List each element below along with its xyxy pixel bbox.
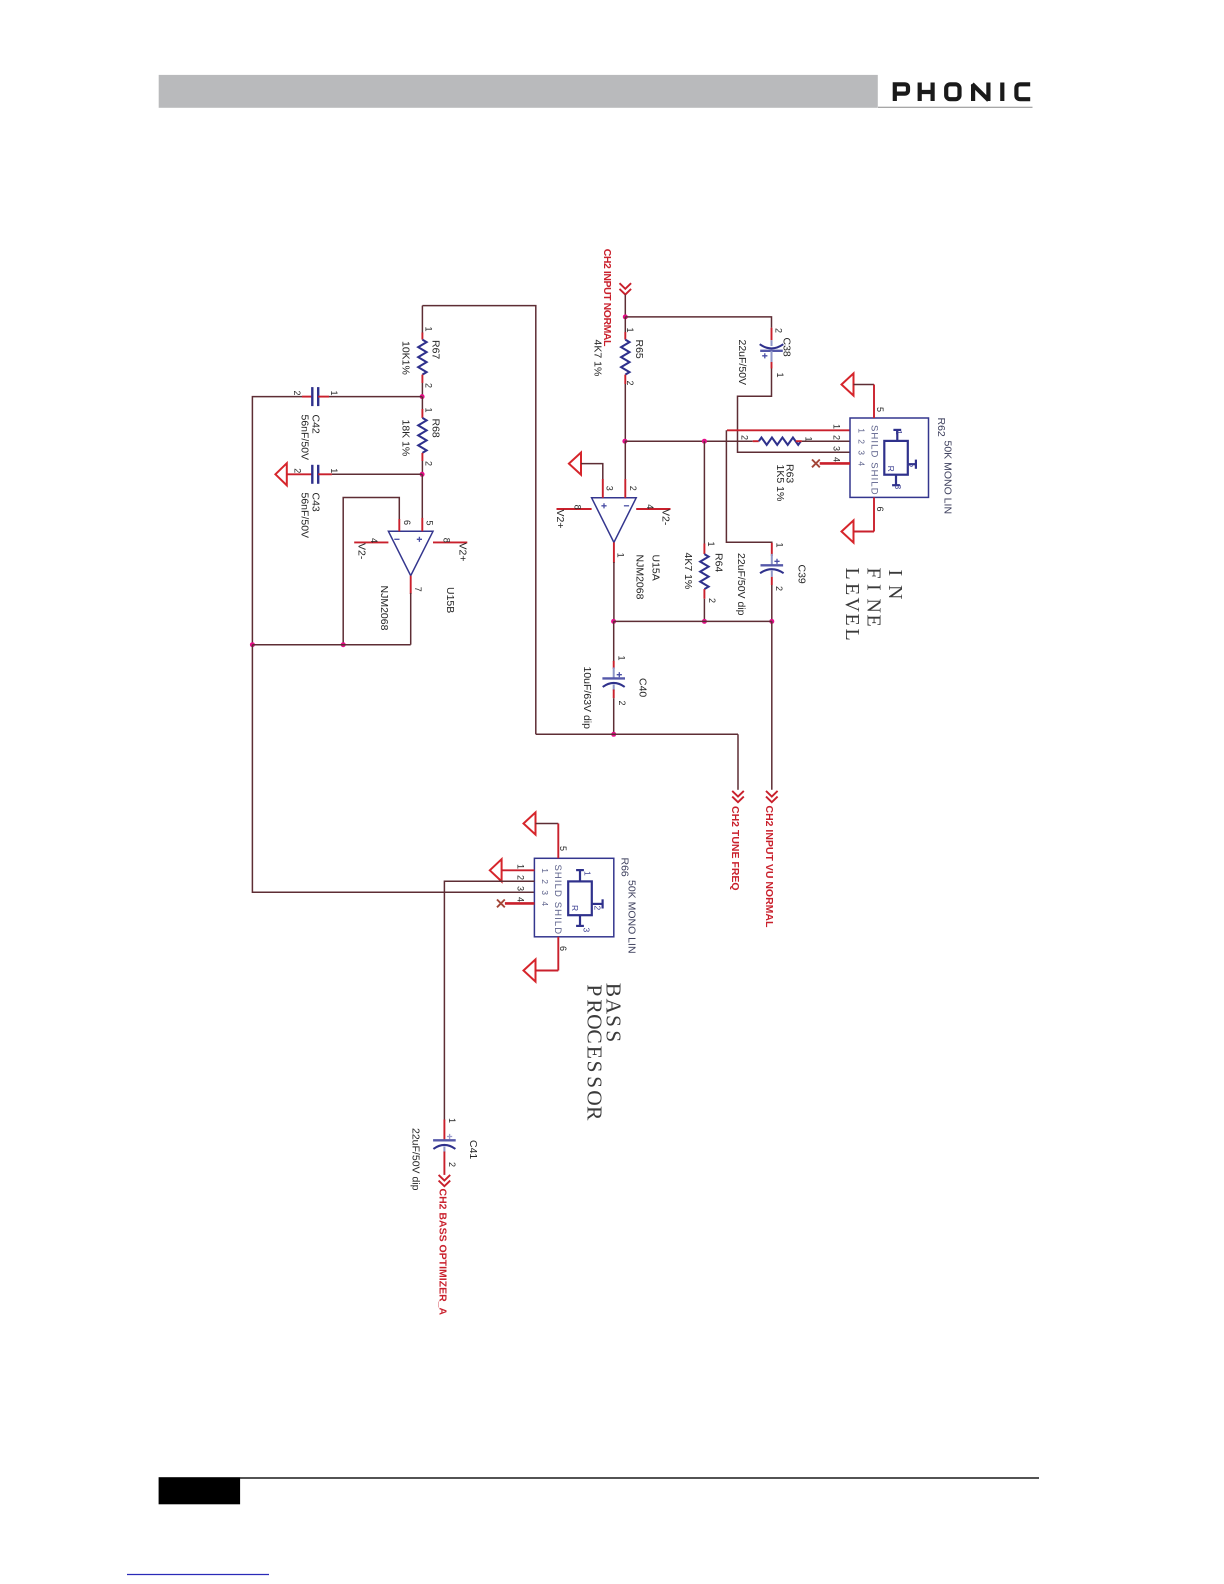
svg-text:18K 1%: 18K 1% [399, 420, 411, 457]
svg-text:2: 2 [516, 875, 526, 880]
svg-text:2: 2 [424, 461, 434, 466]
potentiometer R62 box [850, 418, 929, 497]
svg-text:N: N [862, 599, 884, 613]
svg-text:1: 1 [775, 373, 785, 378]
PHONIC logo letter C [1016, 84, 1030, 99]
svg-text:R66: R66 [619, 858, 631, 877]
U15B pin5 wire from node D [421, 474, 423, 531]
wire top feedback rail [422, 306, 535, 735]
resistor R67 [418, 333, 426, 384]
wire C42 right to node C [329, 396, 422, 398]
R66 pin2 wire to C41 [444, 881, 534, 1120]
shield arrow at C43 [275, 463, 286, 485]
svg-text:1: 1 [424, 408, 434, 413]
svg-text:1: 1 [832, 424, 842, 429]
U15B power pin 8 wire V2+ [433, 541, 467, 543]
svg-text:5: 5 [875, 407, 885, 412]
svg-text:V2+: V2+ [554, 510, 566, 529]
svg-text:E: E [582, 1046, 606, 1059]
svg-text:2: 2 [857, 439, 867, 444]
svg-text:2: 2 [740, 435, 750, 440]
wire rail to R67 [421, 306, 423, 334]
connector CH2 INPUT NORMAL chevron [620, 283, 632, 294]
connector CH2 TUNE FREQ chevron [732, 791, 744, 802]
wire node J to U15B output [252, 644, 410, 646]
title BASS PROCESSOR [582, 983, 625, 1121]
wire C43 right to node D [332, 473, 422, 475]
svg-text:1K5 1%: 1K5 1% [774, 465, 786, 502]
R66 pin6 wire and shield arrow [524, 937, 559, 982]
svg-text:V2+: V2+ [457, 543, 469, 562]
wire node F to node H [614, 620, 772, 622]
R66 pin5 wire and shield arrow [524, 812, 559, 858]
wire C42 left to left rail [252, 397, 302, 645]
R62 pin4 X mark [812, 460, 820, 468]
svg-text:2: 2 [905, 463, 915, 468]
svg-text:5: 5 [425, 521, 435, 526]
wire R63 to R62 pin2 [802, 440, 850, 442]
svg-text:2: 2 [625, 381, 635, 386]
svg-text:R: R [886, 466, 896, 472]
wire R62 pin1 to C39 [726, 430, 850, 554]
svg-text:2: 2 [293, 468, 303, 473]
node C dot [420, 394, 425, 399]
U15B pin6 feedback wire [343, 498, 399, 645]
resistor R64 [700, 544, 708, 599]
svg-text:4: 4 [540, 901, 550, 906]
svg-text:2: 2 [707, 598, 717, 603]
svg-text:2: 2 [593, 906, 603, 911]
svg-text:8: 8 [572, 505, 582, 510]
svg-text:2: 2 [774, 328, 784, 333]
node J dot [250, 642, 255, 647]
node K dot [341, 642, 346, 647]
wire node E down to R64 [703, 441, 705, 544]
wire C39 to node H [771, 585, 773, 621]
PHONIC logo letter I [1000, 83, 1004, 102]
svg-text:E: E [841, 583, 863, 595]
svg-text:1: 1 [616, 656, 626, 661]
PHONIC logo letter N [972, 83, 988, 102]
svg-text:2: 2 [447, 1162, 457, 1167]
capacitor C38 [760, 328, 784, 369]
R62 outside pin digits [832, 424, 842, 462]
svg-text:3: 3 [581, 928, 591, 933]
connector CH2 INPUT VU NORMAL chevron [766, 791, 778, 802]
wire node A to C38 top [625, 317, 771, 328]
svg-text:1: 1 [540, 868, 550, 873]
svg-text:1: 1 [424, 327, 434, 332]
svg-text:O: O [582, 1014, 606, 1030]
node E dot [702, 439, 707, 444]
svg-text:4: 4 [832, 457, 842, 462]
svg-text:50K MONO LIN: 50K MONO LIN [942, 441, 954, 515]
svg-text:5: 5 [558, 846, 568, 851]
wire node I to chevron CH2 TUNE FREQ [737, 734, 739, 790]
wire node B to R63 row [625, 440, 753, 442]
R62 pin6 wire and shield arrow [842, 497, 875, 542]
footer rule line [240, 1477, 1039, 1479]
svg-text:R67: R67 [430, 340, 442, 359]
svg-text:C41: C41 [467, 1140, 479, 1159]
capacitor C40 [602, 661, 625, 698]
svg-text:C40: C40 [637, 678, 649, 697]
svg-text:56nF/50V: 56nF/50V [299, 415, 311, 461]
svg-text:8: 8 [442, 538, 452, 543]
svg-text:CH2 BASS OPTIMIZER_A: CH2 BASS OPTIMIZER_A [437, 1189, 449, 1316]
svg-text:1: 1 [775, 543, 785, 548]
header underline [878, 106, 1033, 108]
svg-text:4: 4 [857, 461, 867, 466]
svg-text:E: E [841, 614, 863, 626]
svg-text:1: 1 [516, 864, 526, 869]
svg-text:1: 1 [582, 871, 592, 876]
capacitor C42 [302, 387, 329, 406]
svg-text:R68: R68 [430, 419, 442, 438]
svg-text:22uF/50V dip: 22uF/50V dip [735, 553, 747, 616]
svg-text:7: 7 [413, 587, 423, 592]
svg-text:3: 3 [893, 485, 903, 490]
resistor R65 [621, 332, 629, 384]
node A dot [623, 314, 628, 319]
svg-text:O: O [582, 1090, 606, 1106]
resistor R68 [418, 409, 426, 461]
U15A output pin1 wire [613, 542, 615, 621]
node I dot [611, 732, 616, 737]
svg-text:6: 6 [558, 946, 568, 951]
op-amp U15A [592, 498, 637, 543]
svg-text:N: N [884, 585, 906, 599]
svg-text:6: 6 [402, 520, 412, 525]
wire node A down to R65 [624, 317, 626, 333]
svg-text:C: C [582, 1029, 606, 1043]
R62 pin4 no-connect stub [820, 462, 850, 465]
svg-text:4K7 1%: 4K7 1% [682, 553, 694, 590]
svg-text:NJM2068: NJM2068 [634, 555, 646, 600]
PHONIC logo letter H [920, 83, 933, 102]
svg-text:10uF/63V dip: 10uF/63V dip [581, 667, 593, 730]
svg-text:R65: R65 [633, 340, 645, 359]
wire R64 to node G [703, 599, 705, 622]
svg-text:2: 2 [540, 879, 550, 884]
potentiometer R66 box [534, 858, 613, 937]
svg-text:R: R [570, 905, 580, 911]
svg-text:2: 2 [617, 701, 627, 706]
svg-text:V: V [841, 598, 863, 613]
svg-text:4: 4 [645, 504, 655, 509]
svg-text:2: 2 [292, 391, 302, 396]
svg-text:CH2 INPUT NORMAL: CH2 INPUT NORMAL [601, 249, 613, 347]
svg-text:1: 1 [706, 542, 716, 547]
wire node F down to C40 [613, 621, 615, 661]
svg-text:R62: R62 [935, 418, 947, 437]
capacitor C43 [287, 465, 332, 484]
svg-text:NJM2068: NJM2068 [378, 586, 390, 631]
svg-text:S: S [582, 1076, 606, 1088]
svg-text:4: 4 [369, 538, 379, 543]
wire R65 to node B [624, 384, 626, 441]
wire R67 to node C [421, 383, 423, 397]
svg-text:10K1%: 10K1% [399, 341, 411, 375]
svg-text:1: 1 [447, 1118, 457, 1123]
node F dot [611, 619, 616, 624]
svg-text:3: 3 [832, 446, 842, 451]
wire chevron to node A [624, 295, 626, 317]
svg-text:22uF/50V: 22uF/50V [736, 340, 748, 386]
wire node H to chevron CH2 INPUT VU NORMAL [771, 621, 773, 789]
svg-text:1: 1 [329, 468, 339, 473]
node B dot [622, 439, 627, 444]
svg-text:R: R [582, 1106, 606, 1121]
svg-text:R: R [582, 999, 606, 1014]
svg-text:V2-: V2- [356, 543, 368, 560]
svg-text:1: 1 [857, 428, 867, 433]
svg-text:U15B: U15B [444, 587, 456, 613]
svg-text:22uF/50V dip: 22uF/50V dip [410, 1128, 422, 1191]
U15A power pin 8 wire V2+ [557, 508, 592, 510]
wire R68 to node D [421, 461, 423, 474]
svg-text:SHILD SHILD: SHILD SHILD [552, 865, 563, 936]
svg-text:2: 2 [832, 435, 842, 440]
R66 pin4 no-connect stub [505, 902, 535, 905]
capacitor C39 [760, 543, 784, 585]
U15B power pin 4 wire V2- [354, 541, 388, 543]
PHONIC logo letter O [946, 84, 959, 99]
svg-text:3: 3 [857, 450, 867, 455]
R66 outside pin digits [516, 864, 526, 902]
svg-text:C39: C39 [796, 565, 808, 584]
header gray bar [159, 75, 878, 108]
svg-text:SHILD SHILD: SHILD SHILD [868, 425, 879, 496]
footer black box [159, 1477, 241, 1504]
wire C38 to R62 pin3 [738, 369, 851, 453]
wire node I row [536, 733, 738, 735]
wire C40 to node I [613, 698, 615, 734]
U15A power pin 4 wire V2- [636, 508, 670, 510]
wire left rail down to R66 pin3 [252, 645, 534, 893]
U15A pin2 wire from node B [624, 441, 626, 498]
svg-text:CH2 TUNE FREQ: CH2 TUNE FREQ [729, 806, 741, 891]
svg-text:1: 1 [616, 553, 626, 558]
wire node C to R68 [421, 397, 423, 410]
svg-text:6: 6 [875, 507, 885, 512]
svg-text:50K MONO LIN: 50K MONO LIN [626, 880, 638, 954]
svg-text:CH2 INPUT VU NORMAL: CH2 INPUT VU NORMAL [763, 806, 775, 929]
node G dot [702, 619, 707, 624]
R66 inside pin digits [540, 868, 550, 906]
svg-text:2: 2 [774, 586, 784, 591]
svg-text:4K7 1%: 4K7 1% [592, 340, 604, 377]
title IN FINE LEVEL [841, 568, 906, 641]
svg-text:F: F [862, 568, 884, 579]
svg-text:2: 2 [424, 383, 434, 388]
PHONIC logo letter P [895, 84, 908, 101]
svg-text:E: E [862, 615, 884, 627]
R62 pin5 wire and shield arrow [842, 373, 875, 418]
connector CH2 BASS OPTIMIZER_A chevron [439, 1175, 451, 1186]
svg-text:3: 3 [605, 486, 615, 491]
svg-text:S: S [582, 1061, 606, 1073]
U15A pin3 wire and shield arrow [569, 453, 603, 498]
R66 internal pot resistor [568, 870, 602, 926]
svg-text:C38: C38 [781, 338, 793, 357]
resistor R63 [753, 438, 802, 445]
svg-text:1: 1 [329, 391, 339, 396]
svg-text:L: L [841, 568, 863, 580]
svg-text:56nF/50V: 56nF/50V [299, 493, 311, 539]
svg-text:3: 3 [516, 886, 526, 891]
R66 pin1 wire and shield arrow [490, 859, 535, 881]
capacitor C41 [433, 1120, 456, 1175]
svg-text:1: 1 [625, 328, 635, 333]
svg-text:I: I [862, 584, 884, 591]
svg-text:V2-: V2- [660, 509, 672, 526]
svg-text:1: 1 [894, 430, 904, 435]
footer blue link line [127, 1574, 269, 1576]
svg-text:I: I [884, 570, 906, 577]
R62 inside pin digits [857, 428, 867, 466]
R62 internal pot resistor [884, 430, 916, 485]
node H dot [769, 619, 774, 624]
U15B output pin7 wire [410, 576, 412, 645]
svg-text:L: L [841, 629, 863, 641]
svg-text:4: 4 [516, 897, 526, 902]
R66 pin4 X mark [497, 900, 505, 908]
svg-text:R64: R64 [713, 553, 725, 572]
svg-text:P: P [582, 984, 606, 996]
svg-text:2: 2 [628, 486, 638, 491]
svg-text:3: 3 [540, 890, 550, 895]
svg-text:U15A: U15A [650, 555, 662, 581]
node D dot [420, 472, 425, 477]
op-amp U15B [388, 531, 433, 575]
